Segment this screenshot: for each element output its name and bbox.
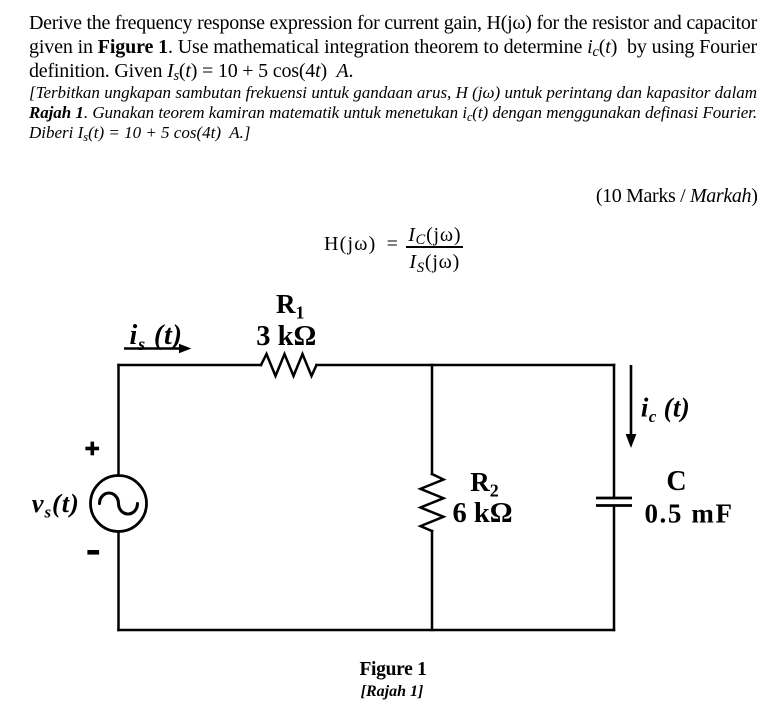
svg-text:6 kΩ: 6 kΩ: [452, 498, 512, 529]
svg-text:is (t): is (t): [130, 320, 183, 354]
svg-text:3 kΩ: 3 kΩ: [256, 321, 316, 352]
svg-text:R2: R2: [470, 467, 499, 501]
svg-text:0.5 mF: 0.5 mF: [644, 499, 733, 529]
svg-text:C: C: [666, 466, 686, 497]
svg-text:[Rajah 1]: [Rajah 1]: [361, 683, 424, 700]
svg-text:R1: R1: [276, 289, 305, 323]
svg-text:Figure 1: Figure 1: [359, 659, 426, 680]
svg-text:ic (t): ic (t): [641, 393, 690, 427]
svg-text:vs(t): vs(t): [32, 488, 80, 522]
